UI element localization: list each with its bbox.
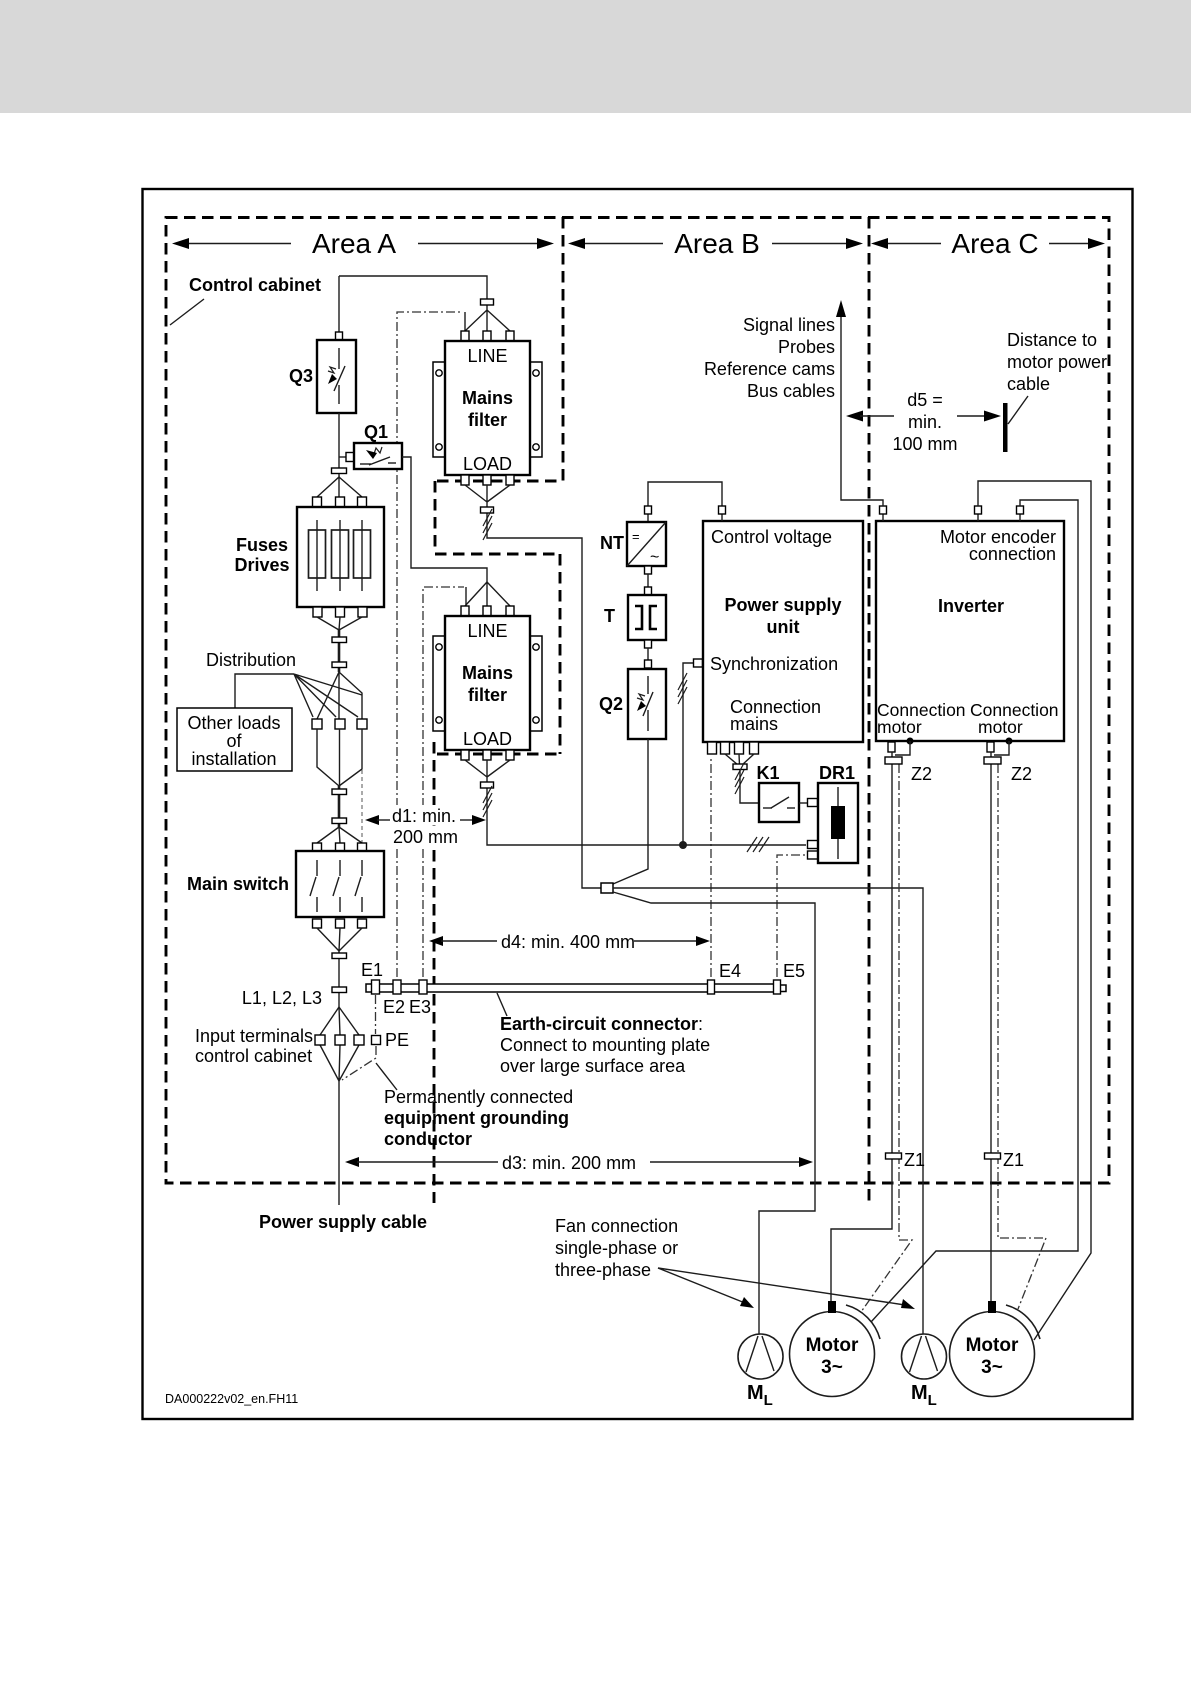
hash marks sync line — [678, 673, 687, 704]
gray header band — [0, 0, 1191, 113]
hash marks filter1 output — [483, 509, 492, 540]
d1 dimension extension line — [361, 770, 363, 848]
ferrite bead 4 — [332, 818, 347, 824]
wire PSU mains fan to K1 — [725, 754, 759, 803]
svg-text:E3: E3 — [409, 997, 431, 1017]
svg-text:=: = — [632, 529, 640, 544]
ferrite bead filter1 top — [481, 299, 494, 305]
label Earth-circuit connector — [497, 993, 710, 1076]
svg-text:LINE: LINE — [467, 621, 507, 641]
svg-text:Fan connection: Fan connection — [555, 1216, 678, 1236]
outer frame — [143, 189, 1133, 1419]
dashed vertical below filter enclosure 2 — [433, 742, 436, 1203]
connector fuses bottom 2 — [336, 607, 345, 617]
ferrite Z2 right — [984, 757, 1001, 764]
ferrite bead 1 — [332, 637, 347, 643]
svg-text:Drives: Drives — [234, 555, 289, 575]
wire node to fan 1 — [613, 892, 815, 1335]
svg-text:PE: PE — [385, 1030, 409, 1050]
wire hook motor connection 2 — [994, 741, 1009, 755]
ferrite bead below Q1 — [332, 468, 347, 474]
svg-text:E4: E4 — [719, 961, 741, 981]
connector fuses top 1 — [313, 497, 322, 507]
power supply unit box — [703, 521, 863, 742]
svg-text:LOAD: LOAD — [463, 454, 512, 474]
svg-text:3~: 3~ — [981, 1357, 1003, 1378]
connector filter2 load 1 — [461, 750, 469, 760]
svg-text:Distribution: Distribution — [206, 650, 296, 670]
wire bundle to main switch — [338, 786, 341, 827]
svg-text:Connect to mounting plate: Connect to mounting plate — [500, 1035, 710, 1055]
wire stubs inverter top — [883, 514, 1020, 521]
ferrite bead 2 — [332, 662, 347, 668]
svg-text:Z2: Z2 — [911, 764, 932, 784]
connector synchronization — [694, 659, 703, 667]
connector DR1 left 2 — [808, 841, 818, 849]
hash marks PSU mains — [735, 763, 744, 794]
wire fan below main switch — [317, 928, 362, 951]
connector Q1 left — [346, 453, 354, 462]
input terminal 1 — [315, 1035, 325, 1045]
svg-text:Motor: Motor — [966, 1335, 1019, 1356]
svg-text:motor power: motor power — [1007, 352, 1107, 372]
svg-text:mains: mains — [730, 714, 778, 734]
svg-text:100 mm: 100 mm — [892, 434, 957, 454]
ferrite bead 6 — [332, 987, 347, 993]
svg-text:three-phase: three-phase — [555, 1260, 651, 1280]
wire Q1 to mains filter 2 — [402, 457, 487, 582]
svg-text:Z1: Z1 — [904, 1150, 925, 1170]
dash-dot line E1 to PE — [342, 995, 376, 1080]
svg-text:Permanently connected: Permanently connected — [384, 1087, 573, 1107]
ferrite bead 5 — [332, 953, 347, 959]
dashed boundary Area B/C — [868, 217, 871, 1203]
dimension d1 — [365, 805, 486, 847]
dashed filter enclosure 2 right — [559, 554, 562, 754]
wire NT to T — [647, 574, 649, 588]
connector inverter bottom 2 — [987, 742, 994, 752]
svg-text:LOAD: LOAD — [463, 729, 512, 749]
main switch box — [296, 851, 384, 917]
connector PSU mains 4 — [750, 742, 759, 754]
distribution terminal 1 — [312, 719, 322, 729]
dashed filter enclosure 2 bottom — [437, 753, 560, 756]
transformer T — [628, 595, 666, 640]
wire fan into fuses — [317, 477, 362, 497]
connector T top — [645, 587, 652, 595]
svg-text:Bus cables: Bus cables — [747, 381, 835, 401]
label Area A with dimension arrows — [172, 228, 554, 259]
label Distance to motor power cable — [1007, 330, 1107, 424]
svg-text:over large surface area: over large surface area — [500, 1056, 686, 1076]
svg-text:Q2: Q2 — [599, 694, 623, 714]
earth-circuit connector bar — [366, 984, 774, 992]
connector filter2 load 2 — [483, 750, 491, 760]
wire stub NT top — [647, 514, 649, 522]
terminal E4 — [708, 980, 715, 994]
label Permanently connected equipment grounding conductor — [376, 1063, 573, 1149]
svg-text:E1: E1 — [361, 960, 383, 980]
connector filter2 load 3 — [506, 750, 514, 760]
svg-text:Main switch: Main switch — [187, 874, 289, 894]
connector filter2 line 3 — [506, 606, 514, 616]
connector main switch bottom 3 — [358, 919, 367, 928]
svg-text:d3: min. 200 mm: d3: min. 200 mm — [502, 1153, 636, 1173]
svg-text:Z1: Z1 — [1003, 1150, 1024, 1170]
connector fuses bottom 1 — [313, 607, 322, 617]
junction dot inverter motor 2 — [1006, 738, 1013, 745]
junction dot mains line — [679, 841, 687, 849]
connector main switch bottom 1 — [313, 919, 322, 928]
dash-dot line E5 to DR1 — [777, 855, 806, 977]
connector DR1 left 1 — [808, 799, 818, 807]
dash-dot shield motor 1 — [861, 764, 912, 1312]
svg-text:d5 =: d5 = — [907, 390, 943, 410]
breaker Q1 — [354, 443, 402, 469]
ferrite bead 3 — [332, 789, 347, 795]
wire stub PSU top — [721, 514, 723, 521]
earth bar end tab — [779, 985, 786, 992]
junction dot inverter motor 1 — [907, 738, 914, 745]
connector main switch top 1 — [313, 843, 322, 852]
connector inverter bottom 1 — [888, 742, 895, 752]
connector main switch bottom 2 — [336, 919, 345, 928]
dashed filter enclosure 1 bottom — [437, 480, 563, 483]
connector PSU top — [719, 506, 726, 514]
svg-text:Mains: Mains — [462, 388, 513, 408]
svg-text:3~: 3~ — [821, 1357, 843, 1378]
wire stub to Q1 — [339, 456, 346, 458]
mains filter 1 — [433, 341, 542, 475]
svg-text:T: T — [604, 606, 615, 626]
hash marks mains line — [747, 837, 769, 852]
svg-text:Power supply: Power supply — [724, 595, 841, 615]
svg-text:Control voltage: Control voltage — [711, 527, 832, 547]
connector main switch top 3 — [358, 843, 367, 852]
ferrite bead filter1 load — [481, 507, 494, 513]
wire fan to distribution terminals — [317, 672, 362, 719]
wire motor 2 power — [990, 752, 992, 1301]
shield arc motor 1 — [846, 1305, 880, 1339]
input terminal 2 — [335, 1035, 345, 1045]
motor power cable bar — [1003, 403, 1008, 452]
dash-dot shield motor 2 — [998, 764, 1046, 1309]
ferrite Z2 left — [885, 757, 902, 764]
node distribution block — [601, 883, 613, 893]
power supply NT — [627, 522, 666, 566]
wire filter2 load fan — [465, 760, 806, 845]
svg-text:Z2: Z2 — [1011, 764, 1032, 784]
connector fuses top 2 — [336, 497, 345, 507]
wire bundle fuses to distribution — [338, 630, 341, 672]
svg-text:DA000222v02_en.FH11: DA000222v02_en.FH11 — [165, 1392, 298, 1406]
distribution terminal 2 — [335, 719, 345, 729]
svg-text:Area C: Area C — [951, 228, 1038, 259]
connector filter1 load 2 — [483, 475, 491, 485]
svg-text:Synchronization: Synchronization — [710, 654, 838, 674]
svg-text:of: of — [226, 731, 242, 751]
label Fan connection — [555, 1216, 915, 1309]
terminal E1 — [372, 980, 380, 994]
svg-text:control cabinet: control cabinet — [195, 1046, 312, 1066]
motor 1 — [790, 1301, 875, 1397]
wire synchronization tap — [683, 663, 693, 845]
wire distribution to main switch — [317, 729, 362, 786]
terminal E2 — [393, 980, 401, 994]
wire filter2 line fan — [465, 582, 510, 606]
label Area C with dimension arrows — [871, 228, 1105, 259]
wire hook motor connection 1 — [895, 741, 910, 755]
hash marks filter2 output — [483, 786, 492, 817]
box Other loads of installation — [177, 708, 292, 771]
svg-text:Reference cams: Reference cams — [704, 359, 835, 379]
wire filter1 line fan — [465, 305, 510, 331]
ferrite bead filter2 load — [481, 782, 494, 788]
connector PSU mains 1 — [708, 742, 717, 754]
svg-text:conductor: conductor — [384, 1129, 472, 1149]
contactor K1 — [759, 783, 799, 822]
dimension d4 — [429, 932, 710, 952]
connector main switch top 2 — [336, 843, 345, 852]
svg-text:LINE: LINE — [467, 346, 507, 366]
svg-text:filter: filter — [468, 685, 507, 705]
dashed filter enclosure left link — [434, 481, 437, 551]
label Input terminals control cabinet — [195, 1026, 313, 1066]
breaker Q3 — [317, 340, 356, 413]
connector filter1 line 3 — [506, 331, 514, 341]
svg-text:motor: motor — [877, 717, 922, 737]
svg-text:K1: K1 — [756, 763, 779, 783]
label Area B with dimension arrows — [568, 228, 863, 259]
connector NT bottom — [645, 566, 652, 574]
connector inverter top 1 — [880, 506, 887, 514]
connector fuses top 3 — [358, 497, 367, 507]
dashed boundary Area A/B — [562, 217, 565, 481]
distribution terminal 3 — [357, 719, 367, 729]
connector filter1 load 3 — [506, 475, 514, 485]
breaker Q2 — [628, 669, 666, 739]
wire T to Q2 — [647, 648, 649, 661]
connector filter1 load 1 — [461, 475, 469, 485]
svg-text:E5: E5 — [783, 961, 805, 981]
svg-text:~: ~ — [650, 549, 659, 566]
wire node to inverter mains and fan 2 — [613, 888, 923, 1334]
svg-text:min.: min. — [908, 412, 942, 432]
wire K1 to DR1 — [799, 802, 808, 804]
connector Q3 top — [336, 332, 343, 341]
wire filter1 load fan — [465, 485, 601, 888]
dimension d3 — [345, 1153, 813, 1173]
svg-text:cable: cable — [1007, 374, 1050, 394]
wire fan below fuses — [317, 617, 362, 630]
terminal E5 — [774, 980, 781, 994]
mains filter 2 — [433, 616, 542, 750]
ferrite bead PSU mains — [733, 764, 747, 770]
svg-text:filter: filter — [468, 410, 507, 430]
svg-text:Power supply cable: Power supply cable — [259, 1212, 427, 1232]
svg-text:Distance to: Distance to — [1007, 330, 1097, 350]
svg-text:Motor: Motor — [806, 1335, 859, 1356]
svg-text:d4: min. 400 mm: d4: min. 400 mm — [501, 932, 635, 952]
fan motor 2 — [902, 1334, 947, 1379]
svg-text:Control cabinet: Control cabinet — [189, 275, 321, 295]
svg-text:Fuses: Fuses — [236, 535, 288, 555]
wire control voltage loop — [648, 482, 722, 507]
svg-text:Other loads: Other loads — [187, 713, 280, 733]
label signal lines — [704, 315, 835, 401]
dash-dot line E4 to power supply unit — [710, 756, 712, 977]
svg-text:Area B: Area B — [674, 228, 760, 259]
connector PSU mains 3 — [735, 742, 744, 754]
connector T bottom — [645, 640, 652, 648]
connector DR1 left 3 — [808, 851, 818, 859]
svg-text:d1: min.: d1: min. — [392, 806, 456, 826]
connector PSU mains 2 — [721, 742, 730, 754]
connector filter1 line 1 — [461, 331, 469, 341]
label Control cabinet — [170, 275, 321, 325]
svg-text:motor: motor — [978, 717, 1023, 737]
svg-text:connection: connection — [969, 544, 1056, 564]
svg-text:200 mm: 200 mm — [393, 827, 458, 847]
connector Q2 top — [645, 660, 652, 668]
svg-text:Probes: Probes — [778, 337, 835, 357]
dimension d5 — [846, 390, 1001, 454]
fuses box — [297, 507, 384, 607]
svg-text:Input terminals: Input terminals — [195, 1026, 313, 1046]
dash-dot shield line filter1 to E2 — [397, 312, 465, 977]
dashed filter enclosure 2 top — [435, 553, 560, 556]
terminal PE — [372, 1036, 381, 1045]
connector NT top — [645, 506, 652, 514]
label Distribution — [206, 650, 362, 717]
wire motor 1 power — [831, 752, 892, 1301]
connector inverter top 3 — [1017, 506, 1024, 514]
motor 2 — [950, 1301, 1035, 1397]
ferrite Z1 left — [886, 1153, 902, 1159]
wire Q3 to fuses — [338, 413, 340, 477]
svg-text:unit: unit — [767, 617, 800, 637]
svg-text:equipment grounding: equipment grounding — [384, 1108, 569, 1128]
wire Q2 to node — [613, 739, 648, 884]
svg-text:DR1: DR1 — [819, 763, 855, 783]
choke DR1 — [818, 783, 858, 863]
svg-text:installation: installation — [191, 749, 276, 769]
dash-dot shield line filter2 to E3 — [423, 587, 466, 977]
svg-text:Earth-circuit connector:: Earth-circuit connector: — [500, 1014, 703, 1034]
svg-text:Signal lines: Signal lines — [743, 315, 835, 335]
svg-text:Q3: Q3 — [289, 366, 313, 386]
connector filter2 line 1 — [461, 606, 469, 616]
connector inverter top 2 — [975, 506, 982, 514]
ferrite Z1 right — [985, 1153, 1001, 1159]
inverter box — [876, 521, 1064, 741]
wire fan into main switch — [317, 827, 362, 843]
dashed cabinet box (Areas A+B+C) — [166, 218, 1109, 1184]
svg-text:single-phase or: single-phase or — [555, 1238, 678, 1258]
svg-text:E2: E2 — [383, 997, 405, 1017]
svg-text:Inverter: Inverter — [938, 596, 1004, 616]
fan motor 1 — [738, 1334, 783, 1379]
svg-text:NT: NT — [600, 533, 624, 553]
svg-text:Mains: Mains — [462, 663, 513, 683]
wire diamond to input terminals — [320, 1007, 359, 1081]
wire into Q3 — [338, 276, 340, 334]
svg-text:Q1: Q1 — [364, 422, 388, 442]
wire bundle to input terminals — [338, 951, 340, 1007]
wire power supply cable — [338, 1081, 340, 1205]
input terminal 3 — [354, 1035, 364, 1045]
wire mains input top — [339, 276, 487, 300]
wire encoder cable motor 1 — [871, 500, 1078, 1322]
terminal E3 — [419, 980, 427, 994]
wire encoder cable motor 2 — [978, 481, 1091, 1340]
wire signal lines arrow — [836, 300, 883, 506]
connector filter2 line 2 — [483, 606, 491, 616]
connector fuses bottom 3 — [358, 607, 367, 617]
svg-text:Area A: Area A — [312, 228, 396, 259]
shield arc motor 2 — [1006, 1305, 1040, 1339]
connector filter1 line 2 — [483, 331, 491, 341]
svg-text:L1, L2, L3: L1, L2, L3 — [242, 988, 322, 1008]
